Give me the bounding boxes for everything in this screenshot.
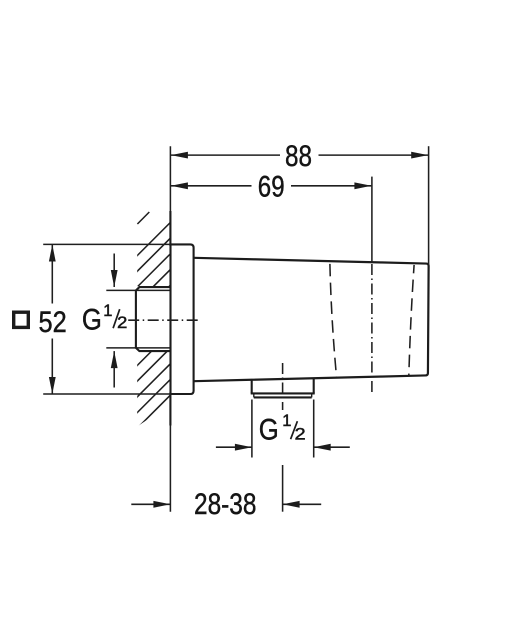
extension line right (88): [428, 146, 430, 264]
svg-text:28-38: 28-38: [194, 488, 256, 521]
outlet dimension with label G 1/2: [251, 400, 253, 458]
union body fill: [194, 258, 429, 381]
inlet thread minor line bottom + extension: [106, 347, 170, 349]
dimension 28-38: [282, 465, 284, 512]
union body fill (over outlet): [194, 258, 429, 381]
inlet thread outline: [136, 287, 171, 351]
inlet thread minor line top + extension: [106, 289, 170, 291]
extension line mid (69): [371, 177, 373, 263]
square section symbol: [14, 312, 29, 327]
outlet axis centerline (dash-dot): [282, 360, 284, 410]
svg-text:88: 88: [285, 140, 312, 173]
wall surface edge below flange: [169, 393, 171, 426]
svg-text:1: 1: [282, 412, 291, 430]
inlet thread body (white mask): [135, 286, 170, 352]
dimension line 52 with arrows: [51, 245, 53, 304]
svg-text:G: G: [259, 414, 279, 447]
union body outline (tapered): [194, 258, 429, 381]
holder axis centerline (dash-dot): [371, 262, 373, 395]
inlet axis centerline (dash-dot): [127, 319, 199, 321]
svg-text:1: 1: [103, 302, 112, 320]
hidden contour dashed line left: [330, 264, 337, 377]
dimension line 69: [171, 185, 252, 187]
svg-text:52: 52: [39, 306, 67, 339]
wall surface line / left extension line: [169, 146, 171, 512]
wall surface edge above flange: [169, 211, 171, 246]
dimension line 88: [171, 154, 280, 156]
wall flange escutcheon plate: [171, 244, 194, 394]
outlet thread stub G1/2: [251, 378, 315, 397]
extension lines for 52: [43, 243, 170, 245]
svg-text:2: 2: [295, 425, 306, 443]
wall section hatching: [128, 213, 180, 469]
wall hatch short line top-left: [137, 212, 149, 224]
svg-text:G: G: [82, 304, 102, 337]
hidden contour dashed line right: [409, 265, 414, 377]
svg-text:69: 69: [258, 170, 285, 203]
inlet leader arrows: [113, 254, 115, 288]
svg-text:2: 2: [117, 314, 127, 332]
